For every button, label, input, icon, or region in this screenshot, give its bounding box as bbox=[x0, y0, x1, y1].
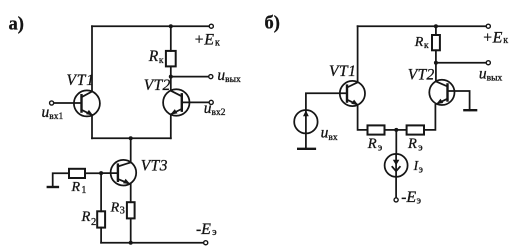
wire: rail to Rk b top bbox=[435, 26, 437, 35]
svg-text:R3: R3 bbox=[110, 200, 125, 216]
svg-text:а): а) bbox=[9, 15, 24, 35]
svg-text:uвых: uвых bbox=[479, 66, 503, 84]
node: base junction VT3 bbox=[99, 171, 103, 175]
terminal uvx2 bbox=[209, 100, 213, 104]
svg-text:R2: R2 bbox=[81, 209, 97, 228]
svg-text:-Eэ: -Eэ bbox=[196, 221, 217, 238]
wire: emitters join a bbox=[92, 137, 171, 139]
transistor VT2 a bbox=[163, 89, 189, 115]
svg-text:+Eк: +Eк bbox=[194, 32, 220, 49]
terminal uvyh a bbox=[209, 75, 213, 79]
svg-text:VT3: VT3 bbox=[141, 157, 168, 174]
transistor VT1 b bbox=[340, 81, 365, 106]
wire: R2 bottom to rail bbox=[100, 228, 102, 243]
wire: Ie to -Ee terminal b bbox=[395, 177, 397, 198]
svg-text:-Eэ: -Eэ bbox=[401, 189, 421, 207]
wire: Re left to junction bbox=[385, 129, 397, 131]
wire: junction down to Ie bbox=[395, 130, 397, 154]
wire: Rk bottom to VT2a collector bbox=[170, 66, 172, 90]
svg-text:Rэ: Rэ bbox=[367, 136, 383, 153]
svg-text:Rк: Rк bbox=[414, 35, 429, 51]
wire: junction to Re right bbox=[396, 129, 406, 131]
svg-text:uвх1: uвх1 bbox=[42, 104, 64, 122]
wire: R3 bottom to rail bbox=[130, 218, 132, 242]
svg-text:R1: R1 bbox=[71, 180, 87, 196]
terminal +Ek b bbox=[486, 24, 490, 28]
svg-text:uвх2: uвх2 bbox=[204, 100, 226, 118]
wire: VT2b base to ground bbox=[448, 91, 470, 110]
ground VT2b bbox=[464, 109, 476, 111]
wire: VT1b emitter down and right bbox=[358, 105, 368, 130]
wire: VT1a emitter down bbox=[91, 116, 93, 139]
wire: VT2a base bbox=[182, 101, 209, 103]
wire: source to ground b bbox=[305, 133, 307, 148]
resistor R1 bbox=[69, 169, 85, 178]
terminal +Ek a bbox=[209, 24, 213, 28]
wire: VT1b base to source bbox=[306, 93, 347, 110]
resistor Re left bbox=[368, 125, 385, 134]
wire: junction down to R2 bbox=[100, 173, 102, 211]
node: emitter junction a bbox=[129, 136, 133, 140]
svg-text:Rк: Rк bbox=[148, 48, 164, 66]
node: junction top rail / Rk a bbox=[169, 24, 173, 28]
resistor Rk b bbox=[432, 35, 440, 50]
svg-text:uвых: uвых bbox=[217, 67, 241, 85]
node: junction uvyh b bbox=[434, 61, 438, 65]
node: junction uvyh a bbox=[169, 75, 173, 79]
wire: VT1b collector up to rail bbox=[357, 26, 359, 82]
wire: VT3 base bbox=[101, 172, 118, 174]
svg-text:Iэ: Iэ bbox=[413, 158, 423, 175]
wire: R1 right to junction bbox=[85, 172, 101, 174]
svg-text:uвх: uвх bbox=[321, 125, 338, 144]
transistor VT3 bbox=[111, 160, 137, 186]
ground a bbox=[48, 186, 58, 188]
wire: to uvyh terminal b bbox=[436, 62, 486, 64]
source u_vx circle bbox=[294, 110, 317, 133]
terminal uvyh b bbox=[486, 61, 490, 65]
resistor R3 bbox=[127, 202, 135, 218]
svg-text:Rэ: Rэ bbox=[407, 136, 423, 153]
wire: top rail b bbox=[358, 25, 486, 27]
svg-text:VT2: VT2 bbox=[408, 67, 435, 84]
wire: down to VT3 collector bbox=[130, 138, 132, 162]
wire: to uvyh terminal a bbox=[171, 76, 209, 78]
wire: R1 left to ground bbox=[53, 173, 69, 187]
transistor VT1 a bbox=[74, 90, 100, 116]
wire: Rk b bottom to junction bbox=[435, 50, 437, 81]
wire: rail to Rk top bbox=[170, 26, 172, 51]
current source Ie bbox=[385, 154, 408, 177]
terminal -Ee a bbox=[204, 241, 208, 245]
wire: VT1a collector up to rail bbox=[91, 26, 93, 91]
ground source b bbox=[298, 148, 315, 150]
resistor Re right bbox=[407, 125, 424, 134]
svg-text:VT2: VT2 bbox=[144, 77, 171, 94]
svg-text:VT1: VT1 bbox=[329, 63, 356, 80]
node: junction bottom rail a bbox=[129, 241, 133, 245]
node: junction top rail / Rk b bbox=[434, 24, 438, 28]
terminal -Ee b bbox=[394, 198, 398, 202]
resistor R2 bbox=[97, 211, 105, 227]
wire: VT2a emitter down bbox=[170, 115, 172, 139]
resistor Rk a bbox=[166, 51, 176, 67]
svg-text:+Eк: +Eк bbox=[482, 29, 508, 46]
transistor VT2 b bbox=[429, 80, 454, 105]
wire: VT1a base bbox=[54, 102, 82, 104]
node: emitter junction b bbox=[394, 128, 398, 132]
wire: Re right up to VT2b emitter bbox=[424, 105, 435, 130]
wire: bottom rail a bbox=[101, 242, 203, 244]
svg-text:б): б) bbox=[265, 14, 280, 34]
wire: VT3 emitter down to R3 bbox=[130, 184, 132, 202]
wire: top rail a bbox=[92, 25, 211, 27]
svg-text:VT1: VT1 bbox=[67, 72, 95, 89]
terminal uvx1 bbox=[50, 101, 54, 105]
